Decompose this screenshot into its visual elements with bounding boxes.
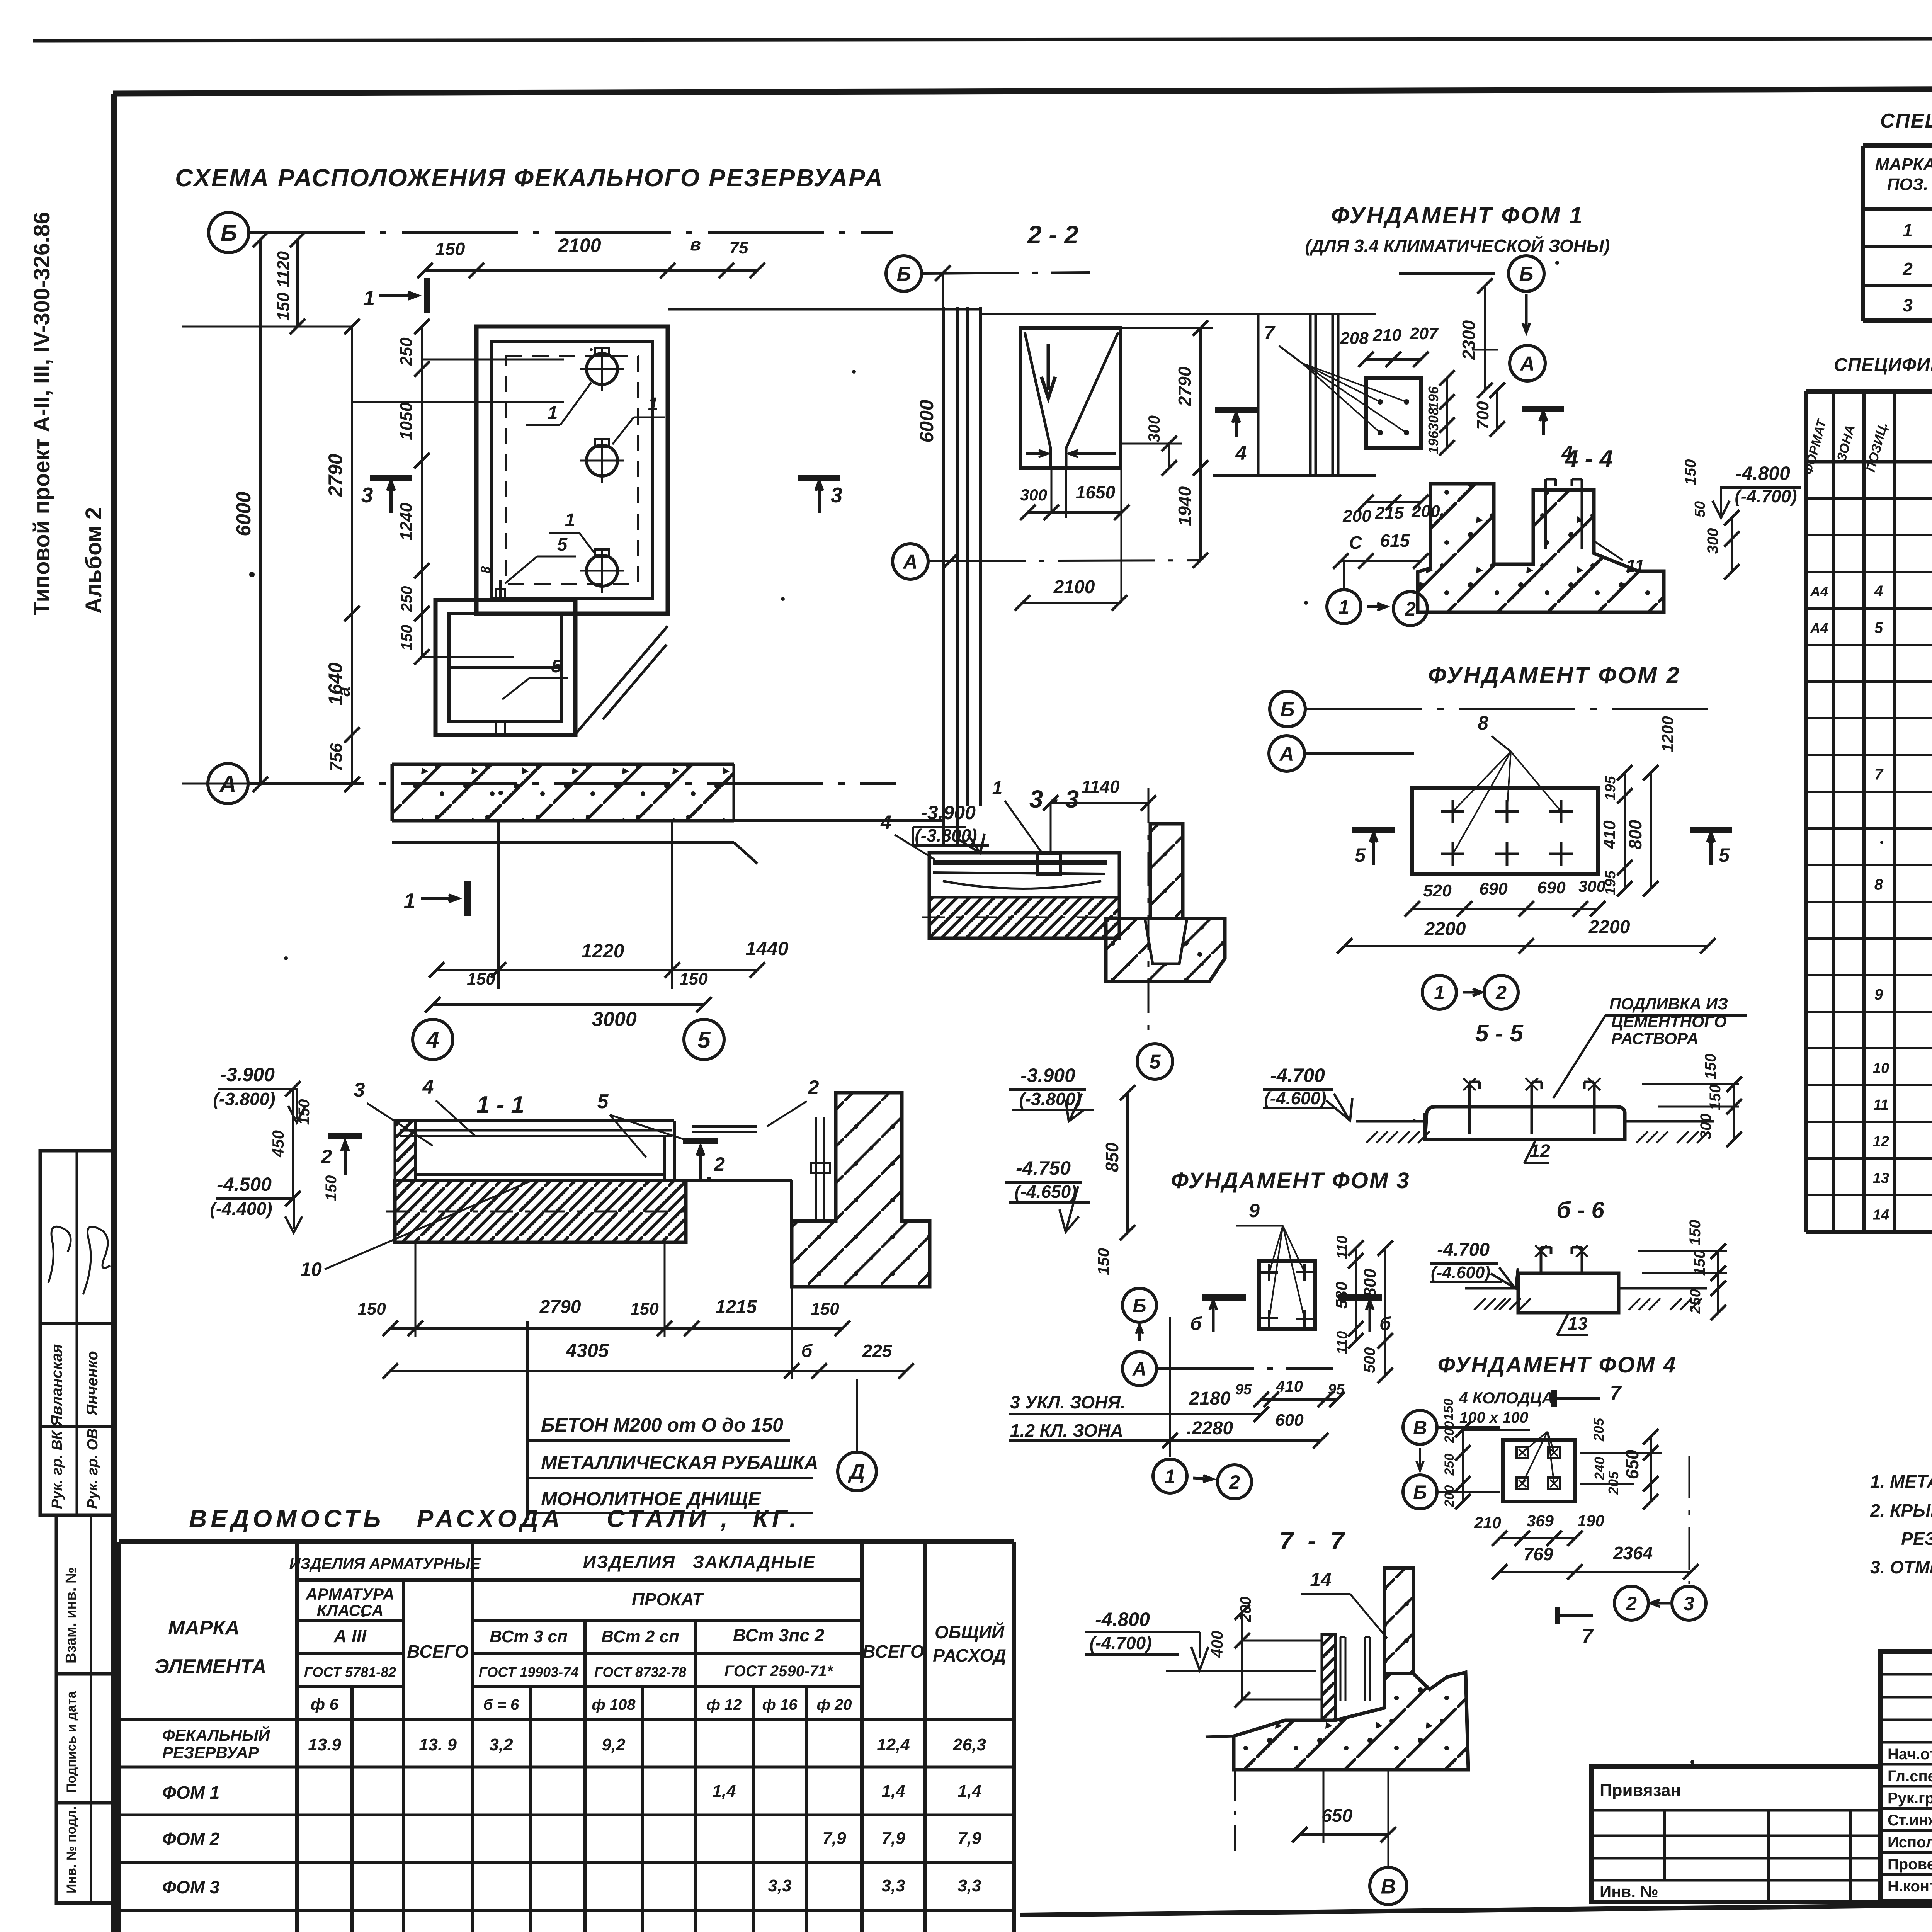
svg-text:1: 1 <box>1434 982 1445 1003</box>
svg-text:7: 7 <box>1582 1625 1594 1648</box>
5-5 leader 12 <box>1524 1139 1536 1163</box>
svg-text:1: 1 <box>548 403 558 423</box>
3-3 grid line dashdot <box>1148 788 1150 1035</box>
svg-text:520: 520 <box>1423 881 1452 900</box>
svg-text:450: 450 <box>269 1130 287 1158</box>
svg-text:ФОМ 2: ФОМ 2 <box>162 1829 220 1849</box>
svg-text:2100: 2100 <box>1053 577 1095 597</box>
svg-text:ГОСТ 19903-74: ГОСТ 19903-74 <box>479 1664 578 1680</box>
svg-text:А: А <box>1519 353 1535 375</box>
svg-text:Нач.отд.: Нач.отд. <box>1888 1746 1932 1763</box>
svg-text:95: 95 <box>1235 1381 1252 1398</box>
svg-text:2. КРЫШКУ-ЛЮЧОК И ЗАКЛАДНЫЕ: 2. КРЫШКУ-ЛЮЧОК И ЗАКЛАДНЫЕ ДЕТАЛИ УСТАН… <box>1870 1500 1932 1520</box>
1-1 cover plates <box>400 1129 672 1132</box>
fom4 section mark 7 bottom <box>1555 1607 1560 1624</box>
svg-text:ф 108: ф 108 <box>592 1696 636 1713</box>
svg-text:5: 5 <box>1719 844 1730 866</box>
svg-text:б = 6: б = 6 <box>483 1696 519 1713</box>
svg-text:650: 650 <box>1622 1449 1642 1479</box>
svg-text:Привязан: Привязан <box>1600 1781 1681 1800</box>
svg-text:150: 150 <box>435 239 465 259</box>
manhole 1 middle <box>587 445 617 476</box>
svg-text:1215: 1215 <box>716 1297 757 1317</box>
svg-text:205: 205 <box>1591 1418 1607 1442</box>
svg-text:ФЕКАЛЬНЫЙ: ФЕКАЛЬНЫЙ <box>162 1725 270 1744</box>
svg-text:26,3: 26,3 <box>952 1735 986 1754</box>
svg-text:5: 5 <box>697 1027 711 1053</box>
svg-text:(-3.800): (-3.800) <box>1019 1089 1081 1109</box>
svg-text:196: 196 <box>1425 430 1441 454</box>
title band bottom line <box>1020 1897 1932 1915</box>
1-1 dims left small <box>292 1089 294 1199</box>
svg-text:240: 240 <box>1592 1457 1607 1480</box>
svg-text:5: 5 <box>597 1090 609 1113</box>
spec2 grid <box>1806 389 1932 394</box>
4-4 anchor bolts <box>1544 479 1547 549</box>
svg-text:А: А <box>1279 743 1294 765</box>
svg-text:3000: 3000 <box>592 1008 637 1031</box>
svg-text:2300: 2300 <box>1459 320 1479 360</box>
svg-text:.2280: .2280 <box>1187 1418 1233 1439</box>
svg-text:Подпись и дата: Подпись и дата <box>64 1690 79 1793</box>
svg-text:Рук.гр: Рук.гр <box>1888 1790 1932 1807</box>
fom2 grid circles 1 2 <box>1422 975 1456 1009</box>
fom4 axis dash line <box>1689 1456 1690 1584</box>
svg-text:195: 195 <box>1602 776 1619 800</box>
svg-text:9: 9 <box>1249 1200 1260 1221</box>
svg-text:225: 225 <box>862 1341 893 1361</box>
2-2 dim 2100 <box>1022 602 1119 604</box>
plan bottom dim 1220 1440 <box>497 821 500 989</box>
svg-text:Типовой проект А-II, III, IV-3: Типовой проект А-II, III, IV-300-326.86 <box>29 212 54 615</box>
svg-text:150: 150 <box>1707 1085 1724 1111</box>
svg-text:150: 150 <box>323 1175 340 1201</box>
svg-text:1940: 1940 <box>1175 486 1195 526</box>
fom1 grid circles 1 2 <box>1327 590 1361 624</box>
svg-text:БЕТОН М200 от О до 150: БЕТОН М200 от О до 150 <box>541 1414 783 1436</box>
3-3 hatch band <box>929 897 1119 938</box>
approval box ruk gr <box>40 1151 114 1515</box>
svg-text:400: 400 <box>1208 1631 1226 1658</box>
svg-text:1440: 1440 <box>745 938 788 959</box>
plan top dim line <box>425 269 757 272</box>
svg-text:Альбом 2: Альбом 2 <box>81 507 106 614</box>
svg-text:ВСт 2 сп: ВСт 2 сп <box>601 1627 679 1646</box>
svg-text:5: 5 <box>1874 619 1883 636</box>
tank dashed shell <box>506 356 638 584</box>
manhole 1 top <box>587 354 617 384</box>
svg-text:СХЕМА РАСПОЛОЖЕНИЯ ФЕКАЛЬНОГО: СХЕМА РАСПОЛОЖЕНИЯ ФЕКАЛЬНОГО РЕЗЕРВУАРА <box>175 164 884 192</box>
lower chamber outer <box>435 600 575 735</box>
svg-text:150: 150 <box>1691 1250 1708 1276</box>
fom2 plate <box>1412 788 1598 874</box>
svg-text:700: 700 <box>1473 401 1492 430</box>
svg-text:7: 7 <box>1264 322 1276 344</box>
svg-text:б: б <box>801 1341 813 1361</box>
fom1 dim 2300 <box>1484 286 1486 390</box>
plan grid circle B <box>209 213 249 253</box>
3-3 grid circle 5 <box>1137 1044 1173 1079</box>
svg-text:3: 3 <box>831 483 843 507</box>
steel table grid <box>119 1539 1014 1544</box>
1-1 dim 850 right <box>1126 1093 1129 1233</box>
svg-text:2790: 2790 <box>539 1297 581 1317</box>
svg-text:ИЗДЕЛИЯ АРМАТУРНЫЕ: ИЗДЕЛИЯ АРМАТУРНЫЕ <box>289 1555 481 1572</box>
svg-text:Б: Б <box>1281 699 1295 721</box>
svg-text:1: 1 <box>404 889 416 913</box>
svg-text:А4: А4 <box>1810 583 1828 599</box>
fom2 grid circle B <box>1270 691 1305 727</box>
svg-text:500: 500 <box>1361 1347 1378 1373</box>
svg-text:3,3: 3,3 <box>881 1876 905 1895</box>
plan dim labels 150 1120 <box>296 240 299 327</box>
svg-text:(-4.700): (-4.700) <box>1735 486 1797 506</box>
scan specks <box>249 572 255 577</box>
svg-text:РАСХОД: РАСХОД <box>933 1645 1006 1665</box>
5-5 ground and slab <box>1356 1120 1425 1123</box>
svg-text:1: 1 <box>992 778 1003 798</box>
svg-text:Б: Б <box>1133 1295 1146 1316</box>
svg-text:Б: Б <box>897 263 911 286</box>
svg-text:ПРОКАТ: ПРОКАТ <box>632 1589 704 1609</box>
1-1 section marks 2 <box>328 1133 362 1139</box>
1-1 left wall <box>395 1121 415 1180</box>
chamber detail 5 upper leader <box>499 580 502 601</box>
section mark 1 bottom <box>464 881 471 916</box>
plan leader lines left <box>352 401 564 403</box>
svg-text:2: 2 <box>714 1153 725 1175</box>
grid circle 4 <box>413 1019 453 1060</box>
svg-text:РЕЗЕРВУАРА .: РЕЗЕРВУАРА . <box>1901 1529 1932 1549</box>
section mark 1 top <box>424 278 430 313</box>
svg-text:12,4: 12,4 <box>877 1735 910 1754</box>
plan grid line A <box>248 782 896 785</box>
svg-text:Янченко: Янченко <box>84 1351 101 1416</box>
svg-text:4: 4 <box>1874 583 1883 600</box>
svg-text:ФУНДАМЕНТ ФОМ 4: ФУНДАМЕНТ ФОМ 4 <box>1437 1352 1677 1378</box>
fom1 bottom dims <box>1366 501 1421 503</box>
svg-text:150: 150 <box>1702 1054 1719 1080</box>
svg-text:2790: 2790 <box>325 454 346 497</box>
svg-text:1.2 КЛ. ЗОНА: 1.2 КЛ. ЗОНА <box>1010 1420 1123 1440</box>
svg-text:7,9: 7,9 <box>822 1829 846 1848</box>
svg-text:в: в <box>690 234 701 254</box>
svg-text:800: 800 <box>1361 1269 1379 1297</box>
svg-text:(-4.650): (-4.650) <box>1014 1182 1077 1202</box>
svg-text:4: 4 <box>880 811 891 833</box>
svg-text:2364: 2364 <box>1613 1543 1653 1563</box>
svg-text:756: 756 <box>327 743 346 772</box>
fom2 side T marks <box>1352 827 1395 833</box>
paper top edge line <box>33 38 1932 41</box>
svg-text:ПОЗ.: ПОЗ. <box>1887 175 1928 194</box>
fom1 top dims <box>1366 358 1421 361</box>
svg-text:2: 2 <box>321 1146 332 1167</box>
svg-text:2200: 2200 <box>1588 917 1630 937</box>
svg-text:2100: 2100 <box>558 235 601 256</box>
svg-text:Инв. № подл.: Инв. № подл. <box>64 1806 79 1893</box>
1-1 right step outline <box>686 1179 792 1182</box>
svg-text:СПЕЦИФИКАЦИЯ К СХЕМЕ РАСПОЛ: СПЕЦИФИКАЦИЯ К СХЕМЕ РАСПОЛОЖЕНИЯ ФЕКАЛЬ… <box>1880 110 1932 132</box>
svg-text:300: 300 <box>1704 528 1721 554</box>
fom1 grid circle A <box>1510 345 1545 381</box>
svg-text:Взам. инв. №: Взам. инв. № <box>63 1567 79 1663</box>
svg-text:-4.700: -4.700 <box>1270 1065 1325 1086</box>
svg-text:МЕТАЛЛИЧЕСКАЯ РУБАШКА: МЕТАЛЛИЧЕСКАЯ РУБАШКА <box>541 1452 818 1473</box>
svg-text:3,3: 3,3 <box>957 1876 981 1895</box>
7-7 anchor bolts <box>1340 1637 1342 1701</box>
svg-text:ОБЩИЙ: ОБЩИЙ <box>935 1622 1005 1642</box>
grid circle 5 <box>684 1019 724 1060</box>
svg-text:11: 11 <box>1873 1097 1888 1113</box>
svg-text:5: 5 <box>1355 844 1366 866</box>
2-2 dim 1940 <box>1199 468 1202 560</box>
svg-text:7,9: 7,9 <box>881 1829 905 1848</box>
plan bottom dim 3000 <box>433 1003 704 1006</box>
svg-text:6000: 6000 <box>233 492 255 536</box>
svg-text:3. ОТМЕТКИ В СКОБКАХ ДАНЫ: 3. ОТМЕТКИ В СКОБКАХ ДАНЫ ДЛЯ КЛАССОВ А-… <box>1870 1557 1932 1577</box>
svg-text:2: 2 <box>1626 1593 1637 1614</box>
svg-text:ВСЕГО: ВСЕГО <box>862 1641 924 1662</box>
plan dim chain 250 1050 1240 <box>421 327 423 657</box>
svg-text:6000: 6000 <box>916 400 937 442</box>
svg-text:75: 75 <box>730 238 748 257</box>
svg-text:ПОДЛИВКА ИЗ: ПОДЛИВКА ИЗ <box>1609 995 1728 1013</box>
svg-text:Б: Б <box>221 220 237 246</box>
6-6 right dims <box>1638 1250 1727 1252</box>
plan grid line B <box>249 231 893 234</box>
svg-text:4305: 4305 <box>565 1340 609 1361</box>
svg-text:-4.750: -4.750 <box>1016 1157 1071 1179</box>
manhole leader 1a <box>560 383 591 425</box>
2-2 funnel box <box>1020 328 1121 468</box>
frame top <box>113 87 1932 94</box>
7-7 foundation block <box>1234 1672 1468 1770</box>
svg-text:8: 8 <box>1874 876 1883 893</box>
svg-text:615: 615 <box>1380 531 1410 551</box>
fom4 right dims <box>1580 1452 1662 1454</box>
svg-text:690: 690 <box>1537 878 1566 897</box>
svg-text:50: 50 <box>1692 501 1708 517</box>
svg-text:5: 5 <box>1150 1051 1161 1073</box>
svg-text:Явланская: Явланская <box>48 1344 65 1427</box>
svg-text:150: 150 <box>1682 459 1699 485</box>
plan grid circle A <box>208 764 248 804</box>
manhole leader 1c <box>580 533 597 556</box>
svg-text:150: 150 <box>811 1299 839 1318</box>
svg-text:А: А <box>902 551 918 573</box>
svg-text:(-4.400): (-4.400) <box>210 1199 272 1219</box>
plan dim chain 2790 1640 <box>351 327 353 784</box>
7-7 ground line <box>1166 1670 1316 1672</box>
svg-text:-3.900: -3.900 <box>220 1064 275 1085</box>
right wall verticals <box>942 307 945 845</box>
svg-text:(-4.700): (-4.700) <box>1089 1633 1151 1653</box>
svg-text:1640: 1640 <box>325 662 346 705</box>
svg-text:210: 210 <box>1372 326 1401 345</box>
svg-text:650: 650 <box>1321 1806 1352 1826</box>
svg-text:-4.500: -4.500 <box>217 1173 272 1195</box>
1-1 cavity bottom lines <box>417 1173 665 1176</box>
svg-text:369: 369 <box>1527 1512 1554 1530</box>
svg-text:1650: 1650 <box>1076 482 1116 502</box>
svg-text:200: 200 <box>1442 1485 1457 1508</box>
privyazan table <box>1591 1766 1881 1902</box>
manhole 1 bottom <box>587 555 617 586</box>
svg-text:ГОСТ 8732-78: ГОСТ 8732-78 <box>594 1664 686 1680</box>
svg-text:а: а <box>333 687 354 697</box>
svg-text:ВСЕГО: ВСЕГО <box>407 1641 469 1662</box>
svg-text:2790: 2790 <box>1175 366 1195 406</box>
svg-text:9: 9 <box>1874 986 1883 1003</box>
svg-text:13: 13 <box>1568 1313 1588 1333</box>
svg-text:ВСт 3 сп: ВСт 3 сп <box>490 1627 568 1646</box>
svg-text:В: В <box>1381 1875 1396 1898</box>
svg-text:10: 10 <box>300 1259 322 1280</box>
svg-text:110: 110 <box>1334 1331 1350 1355</box>
tank outer wall <box>476 327 668 614</box>
svg-text:3: 3 <box>1684 1593 1694 1614</box>
fom3 plate <box>1259 1261 1315 1329</box>
svg-text:5: 5 <box>557 534 568 555</box>
fom4 section mark 7 top <box>1551 1390 1557 1407</box>
svg-text:В: В <box>1413 1417 1427 1439</box>
svg-text:3: 3 <box>361 483 373 507</box>
svg-text:ФОМ 1: ФОМ 1 <box>162 1782 219 1803</box>
svg-text:б: б <box>1190 1314 1202 1334</box>
svg-text:9,2: 9,2 <box>602 1735 626 1754</box>
svg-text:308: 308 <box>1425 408 1441 431</box>
svg-text:Исполн.: Исполн. <box>1888 1834 1932 1851</box>
fom4 left dims <box>1462 1430 1464 1502</box>
7-7 grid circle V <box>1370 1867 1407 1905</box>
svg-text:Б: Б <box>1519 263 1534 286</box>
svg-text:ГОСТ 5781-82: ГОСТ 5781-82 <box>304 1664 396 1680</box>
svg-text:7 - 7: 7 - 7 <box>1279 1526 1346 1555</box>
4-4 leader 11 <box>1594 541 1623 560</box>
2-2 dims right <box>1168 444 1170 468</box>
svg-text:1: 1 <box>363 286 375 310</box>
5-5 right dims <box>1642 1083 1739 1085</box>
svg-text:С: С <box>1349 532 1362 553</box>
3-3 dim 1140 <box>1051 802 1148 804</box>
svg-text:ВЕДОМОСТЬ РАСХОДА СТАЛИ ,: ВЕДОМОСТЬ РАСХОДА СТАЛИ , КГ. <box>189 1505 800 1532</box>
svg-text:Инв. №: Инв. № <box>1600 1883 1658 1901</box>
svg-text:ф 6: ф 6 <box>311 1695 339 1713</box>
svg-text:250: 250 <box>397 337 416 366</box>
svg-text:600: 600 <box>1275 1411 1304 1430</box>
svg-text:-4.800: -4.800 <box>1095 1609 1150 1630</box>
1-1 node circle D <box>838 1452 876 1491</box>
margin box podpis data <box>56 1674 114 1803</box>
svg-text:690: 690 <box>1479 879 1508 898</box>
svg-text:150: 150 <box>630 1299 659 1318</box>
svg-text:-4.700: -4.700 <box>1437 1240 1490 1260</box>
fom2 bottom dims <box>1412 908 1598 910</box>
svg-text:ЭЛЕМЕНТА: ЭЛЕМЕНТА <box>155 1655 266 1678</box>
svg-text:-3.900: -3.900 <box>1020 1065 1075 1086</box>
svg-text:3,3: 3,3 <box>768 1876 791 1895</box>
svg-text:14: 14 <box>1873 1207 1889 1223</box>
fom3 grid dash line vertical <box>1169 1317 1171 1457</box>
svg-text:4 - 4: 4 - 4 <box>1564 446 1613 472</box>
1-1 bottom slab hatch <box>395 1180 686 1242</box>
svg-text:Рук. гр. ОВ: Рук. гр. ОВ <box>85 1429 101 1509</box>
svg-text:А4: А4 <box>1810 620 1828 636</box>
7-7 dim 650 <box>1323 1770 1325 1843</box>
svg-text:1: 1 <box>1338 596 1349 618</box>
fom3 right dims <box>1355 1248 1357 1341</box>
svg-text:2: 2 <box>1405 598 1416 620</box>
svg-text:-4.800: -4.800 <box>1735 463 1790 484</box>
materials list <box>526 1321 529 1520</box>
svg-text:Рук. гр. ВК: Рук. гр. ВК <box>49 1430 65 1509</box>
margin box vzam inv <box>56 1515 114 1674</box>
section mark 3 left <box>370 475 412 481</box>
fom4 bottom dims <box>1500 1537 1575 1539</box>
svg-text:150: 150 <box>398 625 415 651</box>
1-1 tank top line <box>395 1119 674 1122</box>
svg-text:13.9: 13.9 <box>308 1735 341 1754</box>
svg-text:7: 7 <box>1874 766 1884 783</box>
svg-text:1200: 1200 <box>1658 716 1677 752</box>
svg-text:150: 150 <box>679 969 708 988</box>
svg-text:5: 5 <box>551 656 562 677</box>
svg-text:110: 110 <box>1334 1236 1350 1259</box>
svg-text:14: 14 <box>1310 1569 1332 1590</box>
4-4 foundation body <box>1418 484 1664 612</box>
fom2 grid circle A <box>1269 736 1304 771</box>
svg-text:Н.контр.: Н.контр. <box>1888 1878 1932 1895</box>
svg-text:1: 1 <box>565 510 575 531</box>
svg-text:ф 16: ф 16 <box>762 1696 798 1713</box>
svg-text:4: 4 <box>422 1076 434 1098</box>
plan floor hatched band <box>392 764 734 821</box>
fom3 grid circles <box>1122 1288 1156 1322</box>
svg-text:ф 20: ф 20 <box>817 1696 852 1713</box>
3-3 slab body <box>929 853 1119 938</box>
svg-text:(-4.600): (-4.600) <box>1264 1088 1326 1108</box>
svg-text:2: 2 <box>1902 259 1913 279</box>
svg-text:769: 769 <box>1524 1544 1553 1564</box>
svg-text:Провер.: Провер. <box>1888 1856 1932 1873</box>
svg-text:ГОСТ 2590-71*: ГОСТ 2590-71* <box>724 1663 834 1680</box>
svg-text:СПЕЦИФИКАЦИЯ ФЕКАЛЬНОГО РЕЗЕ: СПЕЦИФИКАЦИЯ ФЕКАЛЬНОГО РЕЗЕРВУАРА И ФУН… <box>1834 355 1932 375</box>
svg-text:1: 1 <box>1165 1466 1175 1487</box>
fom2 right dims <box>1624 773 1626 889</box>
frame left <box>111 94 117 1932</box>
svg-text:1220: 1220 <box>581 940 624 962</box>
svg-text:А: А <box>1132 1358 1146 1380</box>
svg-text:250: 250 <box>1687 1289 1704 1314</box>
svg-text:ФУНДАМЕНТ ФОМ 1: ФУНДАМЕНТ ФОМ 1 <box>1331 202 1584 228</box>
svg-text:300: 300 <box>1697 1114 1714 1139</box>
svg-text:300: 300 <box>1020 486 1047 504</box>
svg-text:800: 800 <box>1625 820 1645 849</box>
svg-text:13: 13 <box>1873 1170 1889 1187</box>
section mark 3 right <box>798 475 840 481</box>
svg-text:ф 12: ф 12 <box>707 1696 742 1713</box>
fom4 grid circles 2 3 <box>1614 1586 1648 1620</box>
svg-text:12: 12 <box>1873 1134 1889 1150</box>
svg-text:б - 6: б - 6 <box>1556 1197 1604 1223</box>
fom3 section marks 6 <box>1202 1294 1246 1301</box>
svg-text:150: 150 <box>357 1299 386 1318</box>
svg-text:150 1120: 150 1120 <box>274 251 293 321</box>
svg-text:2: 2 <box>808 1077 819 1099</box>
svg-text:10: 10 <box>1873 1060 1889 1077</box>
svg-text:2: 2 <box>1495 982 1507 1003</box>
